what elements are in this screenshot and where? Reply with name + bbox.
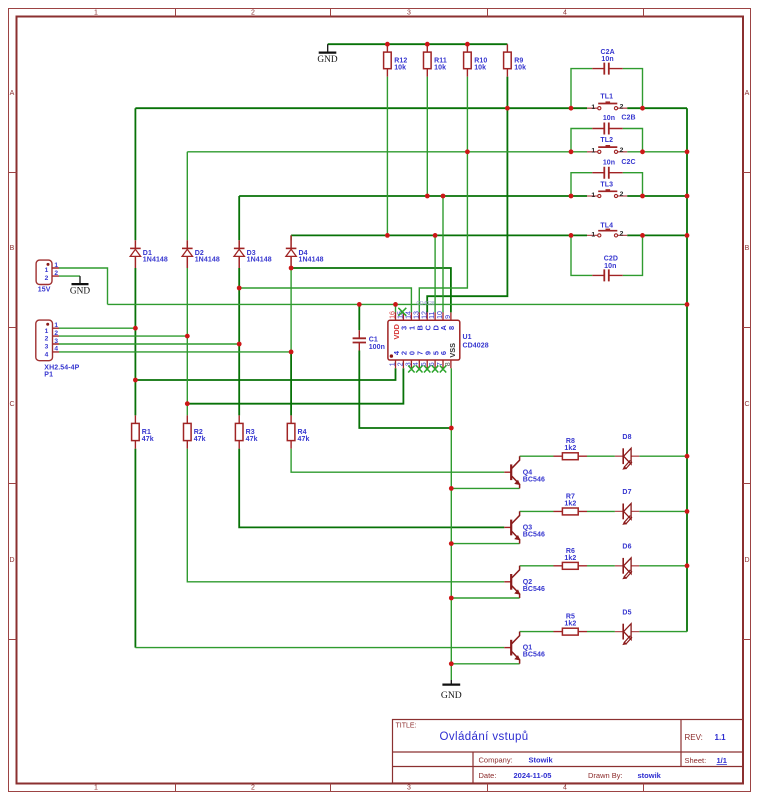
svg-text:1: 1 [94,10,98,17]
svg-text:47k: 47k [142,436,154,443]
junction TL2 bus [685,149,690,154]
svg-text:BC546: BC546 [523,476,545,483]
svg-text:C2A: C2A [600,49,614,56]
wire IC pin2 row [187,368,403,403]
svg-text:Company:: Company: [479,755,513,764]
junction C2B left [569,149,574,154]
svg-text:4: 4 [563,10,567,17]
led D5 [615,609,639,645]
svg-text:47k: 47k [298,436,310,443]
junction C2A left [569,106,574,111]
svg-text:C1: C1 [369,337,378,344]
junction C1 VSS [449,426,454,431]
svg-text:4: 4 [54,346,58,353]
wire R10 column TL2 to pin13 [419,77,467,313]
svg-text:CD4028: CD4028 [416,301,435,307]
wire TL3 row [239,195,687,197]
svg-text:8: 8 [444,362,452,366]
svg-text:CD4028: CD4028 [463,343,489,350]
junction Q2 emitter VSS [449,596,454,601]
svg-text:TL2: TL2 [600,137,613,144]
resistor R6 [554,548,588,570]
resistor R11 [424,44,447,76]
wire VSS column pin8 to GND [450,368,452,680]
svg-text:10k: 10k [394,64,406,71]
junction VDD bus [685,302,690,307]
wire TL4 to pin11 [434,235,436,312]
svg-text:BC546: BC546 [523,586,545,593]
led D8 [615,434,639,470]
top pin numbers 15-9 [397,311,453,319]
pushbutton TL2 [587,137,627,155]
svg-text:2: 2 [251,10,255,17]
svg-text:Q2: Q2 [523,579,533,586]
svg-text:R1: R1 [142,429,151,436]
svg-text:B: B [10,245,15,252]
junction P1 pin3 D3 [237,342,242,347]
svg-text:R5: R5 [566,614,575,621]
ground GND bottom [441,680,462,701]
capacitor C2D [592,255,622,281]
svg-text:2: 2 [45,275,49,282]
svg-text:12: 12 [420,311,428,319]
svg-text:C: C [744,401,749,408]
junction R12-TL4 [385,233,390,238]
resistor R10 [464,44,488,76]
transistor Q3 BC546 [504,511,545,543]
svg-text:XH2.54-4P: XH2.54-4P [44,364,79,371]
wire Q1 emitter row [451,663,519,665]
transistor Q2 BC546 [504,566,545,598]
op IC U1 CD4028 [388,301,489,373]
pushbutton TL3 [587,181,627,199]
svg-text:9: 9 [444,315,452,319]
svg-text:10: 10 [436,311,444,319]
wire Q3 collector row [520,510,687,512]
svg-text:1N4148: 1N4148 [195,257,220,264]
wire GND top row [328,43,508,45]
svg-text:10n: 10n [604,263,616,270]
junction C1 VDD [357,302,362,307]
junction C2D left [569,233,574,238]
no-connect X pin15 [398,308,406,316]
svg-text:1: 1 [591,104,595,111]
wire R12 column [386,77,388,236]
junction D8 bus [685,454,690,459]
junction R11-TL3 [425,194,430,199]
svg-text:3: 3 [45,344,49,351]
WIRES-DARK [135,44,687,647]
svg-text:1: 1 [45,328,49,335]
svg-text:15V: 15V [38,287,51,294]
svg-text:Ovládání vstupů: Ovládání vstupů [440,731,529,743]
connector 15V [36,260,59,294]
svg-text:R10: R10 [474,57,487,64]
capacitor C1 [353,330,385,351]
svg-text:1: 1 [45,267,49,274]
capacitor C2A [592,49,622,75]
junction TL4 bus [685,233,690,238]
wire 15V pin2 [59,275,80,277]
svg-text:BC546: BC546 [523,652,545,659]
svg-text:B: B [745,245,750,252]
svg-text:Q1: Q1 [523,645,533,652]
resistor R1 [132,415,154,448]
top pin names [400,325,456,331]
svg-text:1k2: 1k2 [564,500,576,507]
svg-text:Q4: Q4 [523,469,533,476]
svg-text:GND: GND [317,55,337,65]
svg-text:BC546: BC546 [523,532,545,539]
wire P1 pin2 [59,335,187,337]
svg-text:10n: 10n [603,115,615,122]
junction pin2 row D2 [185,401,190,406]
wire D3 to pin14 [239,288,411,312]
resistor R8 [554,438,588,459]
svg-text:4: 4 [45,352,49,359]
resistor R12 [384,44,408,76]
svg-text:3: 3 [407,785,411,792]
svg-text:1: 1 [591,231,595,238]
svg-text:10n: 10n [603,160,615,167]
svg-text:D5: D5 [622,609,631,616]
svg-text:R12: R12 [394,57,407,64]
svg-text:2: 2 [396,362,404,366]
wire R11 column [426,77,428,196]
junction R9-TL1 [505,106,510,111]
svg-text:2: 2 [620,231,624,238]
transistor Q1 BC546 [504,632,545,664]
svg-text:1: 1 [591,192,595,199]
wire Q2 collector row [520,565,687,567]
svg-text:1: 1 [94,785,98,792]
svg-text:47k: 47k [246,436,258,443]
svg-text:10k: 10k [514,64,526,71]
svg-text:1N4148: 1N4148 [299,257,324,264]
svg-text:C2D: C2D [604,255,618,262]
junction pin1 row D1 [133,378,138,383]
diode D4 1N4148 [286,235,324,268]
junction D7 bus [685,509,690,514]
wire TL2 row [187,151,687,153]
svg-text:U1: U1 [463,334,472,341]
junction pin16 VDD [393,302,398,307]
capacitor C2C [592,159,635,179]
svg-text:1k2: 1k2 [564,555,576,562]
resistor R2 [184,415,206,448]
wire VDD to pin16 [395,304,397,312]
svg-text:TL1: TL1 [600,94,613,101]
junction R10 top [465,42,470,47]
svg-text:2: 2 [620,147,624,154]
pushbutton TL1 [587,94,627,112]
junction D6 bus [685,563,690,568]
wire pin9 row from D4 [291,268,451,312]
wire Q3 emitter row [451,543,519,545]
wire D4 column lower [290,352,292,416]
wire Q1 collector row [520,631,687,633]
junction Q4 emitter VSS [449,486,454,491]
wire P1 pin1 [59,327,135,329]
junction D4 pin9 row [289,266,294,271]
wire IC pin1 row [135,368,395,380]
svg-text:100n: 100n [369,344,385,351]
svg-text:R3: R3 [246,429,255,436]
wire VDD row [108,303,688,305]
svg-text:R8: R8 [566,438,575,445]
pushbutton TL4 [587,223,627,239]
svg-text:D8: D8 [622,434,631,441]
svg-text:6: 6 [439,351,448,355]
wire C2B loop [571,129,643,152]
svg-text:R7: R7 [566,493,575,500]
svg-text:11: 11 [428,311,436,318]
TITLE BLOCK [393,720,744,784]
WIRES-LIGHT [59,69,687,680]
wire C1 column [359,304,451,428]
svg-text:10n: 10n [601,56,613,63]
svg-text:2: 2 [620,103,624,110]
junction P1 pin1 D1 [133,326,138,331]
resistor R5 [554,614,588,636]
junction P1 pin4 D4 [289,350,294,355]
svg-text:1: 1 [54,262,58,269]
diode D2 1N4148 [182,240,220,268]
svg-text:GND: GND [70,286,90,296]
junction Q1 emitter VSS [449,661,454,666]
ground GND at 15V [70,276,90,296]
junction P1 pin2 D2 [185,334,190,339]
svg-text:Drawn By:: Drawn By: [588,771,623,780]
wire C2A loop [571,69,643,109]
diode D1 1N4148 [130,240,168,268]
svg-text:1/1: 1/1 [717,756,727,765]
wire P1 pin3 [59,343,239,345]
wire TL1 row [135,108,687,631]
resistor R9 [504,44,527,76]
svg-text:C: C [9,401,14,408]
svg-text:D6: D6 [622,544,631,551]
wire D3 column [239,196,504,527]
resistor R3 [235,415,257,448]
svg-text:R11: R11 [434,57,447,64]
svg-text:TL4: TL4 [600,223,613,230]
junction TL4 pin11 [433,233,438,238]
led D6 [615,544,639,580]
svg-text:R6: R6 [566,548,575,555]
svg-text:TITLE:: TITLE: [396,723,417,730]
wire C2C loop [571,173,643,196]
wire TL3 to pin10 [442,196,444,312]
junction C2D right [640,233,645,238]
svg-text:1k2: 1k2 [564,445,576,452]
svg-text:47k: 47k [194,436,206,443]
wire D1 column [134,108,136,647]
svg-text:D: D [9,557,14,564]
bottom pin names [392,350,448,355]
wire D4 column [291,235,504,472]
capacitor C2B [592,114,635,134]
junction R10-TL2 [465,149,470,154]
svg-text:GND: GND [441,690,462,701]
junction C2C left [569,194,574,199]
svg-text:REV:: REV: [685,733,703,742]
svg-text:1: 1 [591,148,595,155]
svg-text:8: 8 [447,326,456,330]
connector P1 XH2.54-4P [36,320,80,379]
svg-text:R4: R4 [298,429,307,436]
svg-text:13: 13 [412,311,420,319]
svg-text:2: 2 [54,270,58,277]
svg-text:Stowik: Stowik [529,755,554,764]
svg-text:16: 16 [389,311,397,319]
svg-text:TL3: TL3 [600,181,613,188]
junction C2C right [640,194,645,199]
svg-text:10k: 10k [434,64,446,71]
svg-text:1: 1 [54,322,58,329]
svg-text:A: A [745,90,750,97]
svg-text:3: 3 [54,338,58,345]
no-connect X pins 3-7 [408,366,446,373]
svg-text:3: 3 [407,10,411,17]
junction Q3 emitter VSS [449,541,454,546]
svg-text:Date:: Date: [479,771,497,780]
wire Q2 emitter row [451,597,519,599]
diode D3 1N4148 [234,240,272,268]
junction R12 top [385,42,390,47]
junction C2B right [640,149,645,154]
svg-text:4: 4 [563,785,567,792]
svg-text:1k2: 1k2 [564,621,576,628]
svg-text:VSS: VSS [448,343,457,358]
svg-text:2: 2 [620,191,624,198]
svg-text:R2: R2 [194,429,203,436]
wire C2D loop [571,235,643,275]
svg-text:A: A [10,90,15,97]
svg-text:P1: P1 [44,372,53,379]
wire Q4 emitter row [451,487,519,489]
svg-text:Q3: Q3 [523,525,533,532]
svg-text:2: 2 [54,330,58,337]
svg-text:2: 2 [45,336,49,343]
svg-text:2024-11-05: 2024-11-05 [514,771,552,780]
junction TL3 bus [685,194,690,199]
wire Q4 collector row [520,455,687,457]
svg-text:R9: R9 [514,57,523,64]
junction R11 top [425,42,430,47]
wire Q1 base row [135,647,504,649]
svg-text:1N4148: 1N4148 [247,257,272,264]
ground GND top [317,44,337,65]
svg-text:C2B: C2B [621,114,635,121]
junction TL3 pin10 [441,194,446,199]
svg-text:stowik: stowik [638,771,662,780]
junction C2A right [640,106,645,111]
wire R9 column TL1 to pin12 [427,77,507,313]
wire D2 column [187,152,504,582]
transistor Q4 BC546 [504,456,545,488]
svg-text:1: 1 [388,362,396,366]
resistor R4 [287,415,309,448]
svg-text:D: D [744,557,749,564]
wire P1 pin4 [59,351,291,353]
wire 15V pin1 to VDD [59,268,108,304]
svg-text:10k: 10k [474,64,486,71]
svg-text:C2C: C2C [621,159,635,166]
resistor R7 [554,493,588,515]
svg-text:2: 2 [251,785,255,792]
svg-text:1.1: 1.1 [715,733,727,742]
bottom pin numbers 1-8 [388,362,451,366]
svg-text:1N4148: 1N4148 [143,257,168,264]
svg-text:D7: D7 [622,489,631,496]
svg-text:Sheet:: Sheet: [685,756,707,765]
wire TL4 row [291,234,687,236]
junction D3 pin14 row [237,286,242,291]
led D7 [615,489,639,525]
